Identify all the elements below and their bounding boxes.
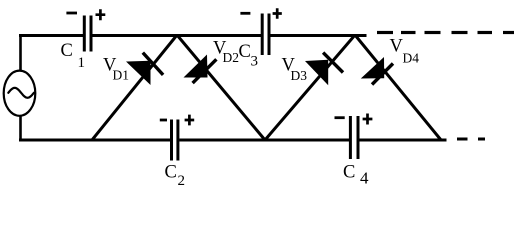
wire: top rail segment left (source to C1) xyxy=(19,34,83,37)
diode VD2 cathode bar xyxy=(193,59,217,83)
diode VD3 cathode bar xyxy=(323,53,343,73)
capacitor C4 right plate xyxy=(357,116,360,159)
wire: bottom rail segment middle (C2 to C4) xyxy=(179,139,349,142)
svg-text:D3: D3 xyxy=(291,68,308,83)
wire: bottom rail dashed continuation xyxy=(457,138,468,141)
circuit: Cockcroft-Walton voltage multiplier schematic xyxy=(0,0,526,189)
capacitor C1 right plate xyxy=(90,16,93,52)
svg-text:C: C xyxy=(165,163,177,183)
wire: diagonal from bottom rail node B up to top rail peak 2 (VD3 branch) xyxy=(265,35,355,140)
capacitor C3 right plate xyxy=(268,14,271,56)
diode VD1 cathode bar xyxy=(143,53,163,75)
svg-text:C: C xyxy=(343,162,355,182)
svg-text:C: C xyxy=(239,42,251,62)
capacitor C3 minus polarity mark xyxy=(240,12,250,15)
svg-text:D4: D4 xyxy=(403,51,420,66)
svg-text:3: 3 xyxy=(251,53,259,69)
capacitor C1 plus polarity mark xyxy=(96,9,106,20)
svg-text:C: C xyxy=(61,41,73,61)
capacitor C4 plus polarity mark xyxy=(363,114,373,125)
svg-text:4: 4 xyxy=(360,169,369,188)
wire: top rail segment right (C3 to dashed end) xyxy=(270,34,366,37)
capacitor C3 left plate xyxy=(261,14,264,56)
svg-text:D2: D2 xyxy=(223,50,240,65)
capacitor C2 left plate xyxy=(170,120,173,161)
capacitor C4 left plate xyxy=(349,116,352,159)
AC source G1 circle xyxy=(4,71,36,116)
wire: top rail segment middle (C1 to C3) xyxy=(92,34,261,37)
capacitor C1 minus polarity mark xyxy=(66,12,77,15)
diode VD1 triangle xyxy=(126,61,151,85)
wire: left vertical from source to bottom rail xyxy=(19,116,22,142)
wire: bottom rail segment right (C4 to dashed end) xyxy=(359,139,446,142)
wire: top rail dashed continuation xyxy=(377,31,393,34)
diode VD3 triangle xyxy=(305,60,328,86)
capacitor C2 plus polarity mark xyxy=(185,115,195,126)
wire: diagonal from bottom rail node A up to top rail peak (VD1 branch) xyxy=(92,35,177,140)
capacitor C4 minus polarity mark xyxy=(335,116,345,119)
capacitor C1 left plate xyxy=(83,16,86,52)
wire: diagonal from top rail peak down to bottom rail node B (VD2 branch) xyxy=(177,35,265,140)
wire: bottom rail segment left (source to C2) xyxy=(19,139,170,142)
capacitor C3 plus polarity mark xyxy=(273,8,282,18)
svg-text:V: V xyxy=(390,37,404,57)
capacitor C2 right plate xyxy=(176,120,179,161)
AC source sine wave symbol xyxy=(8,88,34,98)
svg-text:D1: D1 xyxy=(113,68,130,83)
capacitor C2 minus polarity mark xyxy=(160,119,167,122)
diode VD2 triangle xyxy=(184,55,208,78)
wire: diagonal from top rail peak 2 down to bottom rail node C (VD4 branch) xyxy=(355,35,441,140)
diode VD4 cathode bar xyxy=(372,64,393,85)
svg-text:1: 1 xyxy=(78,55,86,71)
diode VD4 triangle xyxy=(361,57,384,79)
svg-text:2: 2 xyxy=(178,173,186,189)
wire: left vertical from top rail to source xyxy=(19,34,22,71)
